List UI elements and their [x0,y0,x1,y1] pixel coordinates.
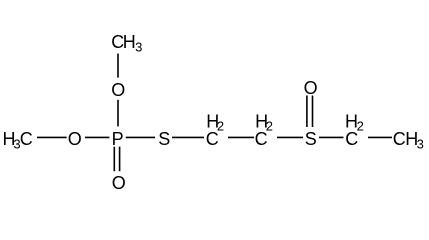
atom C (ethyl CH2 carbon) [345,129,358,149]
svg-text:H: H [123,32,136,52]
bond S-CH2 [172,136,204,138]
double bond S=O (sulfoxide) [307,96,313,128]
svg-text:P: P [112,129,124,149]
atom O (phosphoryl oxygen) [112,173,126,193]
atom O (sulfoxide oxygen) [304,78,318,98]
bond S(O)-CH2 [319,136,344,138]
svg-text:O: O [304,78,318,98]
svg-text:S: S [158,129,170,149]
atom CH3 (right ethyl methyl group) [393,129,424,151]
atom S (thioester sulfur) [158,129,170,149]
svg-text:2: 2 [357,118,364,133]
atom P (phosphorus) [112,129,124,149]
svg-text:2: 2 [217,118,224,133]
label H2 (second CH2 hydrogens) [255,112,273,134]
svg-text:C: C [393,129,406,149]
label H2 (ethyl CH2 hydrogens) [345,112,364,134]
bond CH2-S(O) [277,136,303,138]
atom O (left ester oxygen) [68,129,82,149]
svg-text:O: O [111,80,125,100]
svg-text:3: 3 [417,136,424,151]
bond CH3-O (upper vertical) [117,54,119,78]
atom CH3 (top methyl group) [111,32,142,54]
bond CH2-CH3 [368,136,392,138]
svg-text:C: C [20,129,33,149]
bond O-P (lower vertical) [117,100,119,127]
svg-text:O: O [112,173,126,193]
svg-text:O: O [68,129,82,149]
atom C (first CH2 carbon) [206,129,219,149]
svg-text:S: S [305,129,317,149]
bond P-S [126,136,155,138]
svg-text:3: 3 [135,40,142,55]
svg-text:2: 2 [266,118,273,133]
atom S (sulfoxide sulfur) [305,129,317,149]
atom C (second CH2 carbon) [255,129,268,149]
bond O-P [85,136,109,138]
double bond P=O (phosphoryl) [114,147,119,172]
label H2 (first CH2 hydrogens) [206,112,224,134]
bond H3C-O [37,136,67,138]
bond CH2-CH2 [228,136,254,138]
atom H3C (left methyl group) [3,129,33,151]
atom O (top ester oxygen) [111,80,125,100]
